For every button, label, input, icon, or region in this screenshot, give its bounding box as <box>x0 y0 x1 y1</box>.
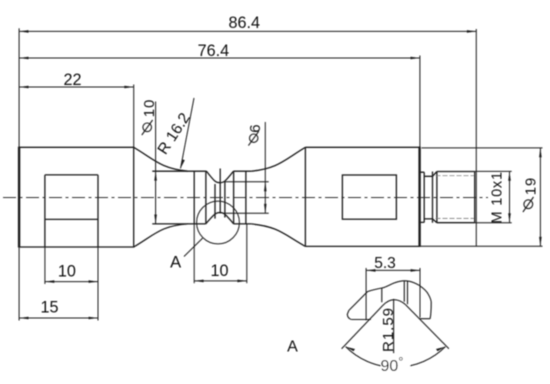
detail band bottom edges <box>351 318 430 321</box>
detail left flank <box>342 306 383 349</box>
notch edge vertical left outer <box>193 171 195 224</box>
detail root radius R1.59 <box>383 300 406 306</box>
notch 10 dim <box>193 224 195 283</box>
dia10 dim line <box>155 102 157 224</box>
keyway 10 dim <box>44 247 46 284</box>
right head end face (thick) <box>418 147 420 247</box>
right keyway window <box>342 175 396 219</box>
fillet bottom-left <box>134 224 188 247</box>
detail right flank <box>406 305 449 349</box>
svg-text:M 10x1: M 10x1 <box>490 171 506 223</box>
notch root tangent edge right <box>224 181 226 218</box>
22 arrows <box>19 86 28 89</box>
svg-text:R1.59: R1.59 <box>380 307 397 352</box>
86.4 arrows <box>19 30 28 33</box>
svg-text:19: 19 <box>522 177 539 195</box>
keyway10 arrows <box>45 280 54 283</box>
svg-text:A: A <box>287 339 298 356</box>
thread relief groove <box>424 172 432 223</box>
notch bottom V profile <box>206 213 234 224</box>
right head outline <box>305 147 419 246</box>
left head end face (thick) <box>18 147 20 248</box>
fillet bottom-right <box>251 224 305 247</box>
thread outer diameter <box>437 172 475 223</box>
svg-text:86.4: 86.4 <box>229 14 261 32</box>
left keyway window bottom edge <box>45 218 98 220</box>
gauge bottom surface left segment <box>152 223 205 225</box>
dia19 arrows <box>539 148 542 157</box>
fillet R16.2 top-left <box>134 147 188 171</box>
dim 22 <box>19 86 134 88</box>
15 arrows <box>19 317 28 320</box>
76.4 arrows <box>19 57 28 60</box>
dia6 arrows <box>264 182 267 191</box>
detail band left break end <box>347 311 351 320</box>
left keyway window left edge <box>44 175 46 247</box>
left head outline <box>19 147 134 247</box>
svg-text:76.4: 76.4 <box>198 42 230 60</box>
left keyway window right edge <box>97 175 99 247</box>
svg-text:10: 10 <box>210 262 228 280</box>
M10x1 arrows <box>508 171 511 180</box>
fillet top-right <box>251 147 305 171</box>
gauge bottom surface right segment <box>234 223 251 225</box>
M10x1 dim <box>475 170 512 172</box>
dia10 arrows <box>154 171 157 180</box>
thread chamfer <box>433 172 437 223</box>
label 90 deg <box>381 355 410 372</box>
svg-text:15: 15 <box>40 298 58 316</box>
gauge top surface left segment <box>152 170 206 172</box>
thread end face <box>474 172 476 223</box>
svg-text:A: A <box>170 254 181 272</box>
90 arc arrows <box>346 347 355 352</box>
centerline axis <box>3 197 488 199</box>
5.3 dim <box>366 269 420 271</box>
dim 86.4 <box>19 30 476 32</box>
90 degree arc <box>346 347 446 368</box>
notch root circle edge <box>219 169 221 214</box>
dia6 dim line <box>264 122 266 213</box>
R16.2 leader <box>181 98 195 169</box>
R16.2 leader arrow <box>181 159 185 168</box>
notch edge vertical right outer <box>245 171 247 224</box>
svg-text:22: 22 <box>63 71 81 89</box>
svg-text:5.3: 5.3 <box>374 255 396 272</box>
detail band upper curve <box>349 281 431 319</box>
svg-text:90°: 90° <box>381 354 404 375</box>
dim 76.4 <box>19 57 420 59</box>
detail band inner verticals <box>382 281 408 304</box>
15 dim <box>19 317 98 319</box>
R1.59 leader <box>393 299 395 353</box>
notch root tangent edge left <box>214 184 216 219</box>
dia19 dim <box>422 147 543 149</box>
gauge top surface right segment <box>234 170 252 172</box>
thread minor diameter (thin) <box>436 176 475 219</box>
notch top V profile <box>206 171 233 182</box>
5.3 arrows <box>366 269 375 272</box>
svg-text:10: 10 <box>58 263 76 281</box>
left keyway window top edge <box>45 174 98 176</box>
detail circle callout <box>197 201 240 244</box>
svg-text:6: 6 <box>247 124 264 132</box>
left common extension line <box>18 28 20 147</box>
thread stub <box>420 172 425 222</box>
notch opening edge left <box>205 171 207 224</box>
notch opening edge right <box>233 171 235 224</box>
svg-text:10: 10 <box>141 99 158 117</box>
svg-text:R 16.2: R 16.2 <box>155 110 194 158</box>
notch10 arrows <box>194 280 203 283</box>
